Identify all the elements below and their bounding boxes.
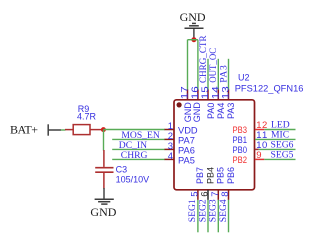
svg-text:PA3: PA3 bbox=[226, 103, 236, 119]
wire SEG2 (pin 6) bbox=[207, 200, 209, 233]
svg-text:CHRG: CHRG bbox=[121, 150, 148, 161]
svg-text:BAT+: BAT+ bbox=[10, 123, 38, 137]
svg-text:GND: GND bbox=[192, 102, 202, 123]
wire MIC (pin 11) bbox=[255, 138, 296, 140]
svg-text:PA0: PA0 bbox=[206, 103, 216, 119]
ground (top, inverted) bbox=[185, 23, 204, 39]
wire SEG6 (pin 10) bbox=[259, 148, 296, 150]
svg-text:VDD: VDD bbox=[178, 125, 198, 135]
svg-text:PA3: PA3 bbox=[218, 65, 229, 83]
svg-text:GND: GND bbox=[90, 205, 116, 219]
svg-text:PB3: PB3 bbox=[233, 125, 248, 135]
svg-text:CHRG_CTR: CHRG_CTR bbox=[198, 35, 209, 83]
svg-text:U2: U2 bbox=[238, 73, 250, 83]
svg-text:SEG4: SEG4 bbox=[218, 199, 229, 222]
wire CHRG bbox=[112, 158, 165, 160]
port BAT+ symbol bbox=[48, 124, 61, 135]
wire LED (pin 12) bbox=[264, 129, 295, 131]
wire SEG3 (pin 7) bbox=[217, 200, 219, 233]
pin 1 marker dot bbox=[177, 102, 182, 107]
svg-text:PB6: PB6 bbox=[226, 167, 236, 184]
svg-text:PB7: PB7 bbox=[195, 167, 205, 184]
svg-text:SEG5: SEG5 bbox=[271, 149, 294, 160]
wire PA3 (pin 13) bbox=[228, 59, 230, 90]
svg-text:13: 13 bbox=[221, 86, 232, 99]
op IC U2 body bbox=[174, 100, 255, 190]
svg-text:PB1: PB1 bbox=[233, 135, 248, 145]
wire SEG5 (pin 9) bbox=[264, 158, 295, 160]
svg-text:4.7R: 4.7R bbox=[77, 111, 97, 121]
ground (bottom) bbox=[95, 188, 114, 204]
pin leads right (12-9) bbox=[255, 130, 264, 160]
svg-text:PB2: PB2 bbox=[233, 155, 248, 165]
svg-text:PFS122_QFN16: PFS122_QFN16 bbox=[235, 84, 304, 94]
wire BAT+ to R9 bbox=[61, 129, 66, 131]
node junction top GND bbox=[191, 37, 196, 42]
wire DC_IN bbox=[112, 148, 165, 150]
wire GND to pins 17,16 bbox=[188, 40, 198, 90]
svg-text:8: 8 bbox=[220, 192, 231, 197]
svg-text:PA6: PA6 bbox=[178, 145, 195, 155]
pin leads left (1-4) bbox=[165, 130, 175, 160]
svg-text:4: 4 bbox=[168, 151, 173, 162]
wire SEG4 (pin 8) bbox=[228, 200, 230, 233]
svg-text:105/10V: 105/10V bbox=[116, 175, 150, 185]
svg-text:PA4: PA4 bbox=[216, 103, 226, 119]
wire OUT_OC (pin 14) bbox=[217, 59, 219, 90]
wire SEG1 (pin 5) bbox=[197, 200, 199, 233]
node junction at R9 output bbox=[101, 127, 106, 132]
svg-text:9: 9 bbox=[256, 150, 261, 161]
wire MOS_EN bbox=[112, 138, 165, 140]
svg-text:GND: GND bbox=[180, 10, 206, 24]
wire CHRG_CTR (pin 15) bbox=[207, 59, 209, 90]
svg-text:PA7: PA7 bbox=[178, 135, 195, 145]
pin leads top (17-13) bbox=[188, 90, 229, 100]
resistor R9 bbox=[65, 125, 102, 135]
svg-text:PB5: PB5 bbox=[216, 167, 226, 184]
svg-text:17: 17 bbox=[180, 86, 191, 99]
svg-text:C3: C3 bbox=[116, 165, 128, 175]
svg-text:PA5: PA5 bbox=[178, 155, 195, 165]
pin leads bottom (5-8), pin 6 black bbox=[198, 190, 229, 200]
wire node down to C3 bbox=[103, 130, 105, 151]
capacitor C3 bbox=[95, 150, 113, 189]
svg-text:PB4: PB4 bbox=[206, 167, 216, 184]
svg-text:PB0: PB0 bbox=[233, 145, 248, 155]
wire node to pin1 bbox=[103, 129, 165, 131]
